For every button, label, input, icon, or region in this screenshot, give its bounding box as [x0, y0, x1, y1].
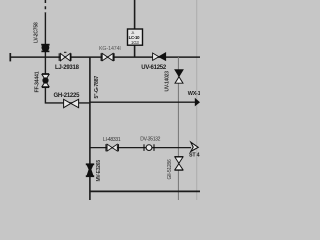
valve FF-34441 on line A (globe with filled ball): [42, 74, 49, 87]
wire: vertical line B from top edge to instrument box: [134, 0, 136, 29]
svg-text:MV-E3265: MV-E3265: [96, 160, 102, 182]
wire: horizontal line H3 from D to off-page arrow: [90, 147, 191, 149]
valve UV-14023 on line C (top filled): [175, 70, 183, 83]
valve LJ-29318 on H1 (gate with end ticks): [59, 52, 71, 61]
svg-text:ST 4: ST 4: [189, 153, 200, 159]
valve 4W-13265 on line D (filled spool): [86, 163, 94, 177]
valve UV-61252 on H1 (half-filled): [153, 53, 166, 61]
svg-text:LI-48331: LI-48331: [103, 137, 121, 143]
svg-text:LV-2C758: LV-2C758: [34, 22, 40, 43]
valve LI-48331 on H3 (with end bars): [106, 144, 118, 151]
svg-text:FF-34441: FF-34441: [34, 71, 40, 92]
svg-text:GH-21225: GH-21225: [54, 93, 81, 99]
wire: main horizontal header H1: [10, 56, 200, 58]
svg-text:UV-61252: UV-61252: [141, 65, 167, 71]
svg-text:WX-1: WX-1: [188, 91, 200, 97]
svg-text:LJ-29318: LJ-29318: [55, 65, 80, 71]
decorative faint page edge line: [196, 0, 198, 200]
wire: vertical line D at x=90 from H1 to bottom edge: [89, 57, 91, 200]
valve GH-21225 on H2: [64, 99, 79, 107]
svg-text:DV-35132: DV-35132: [140, 137, 160, 143]
instrument box LC-10: [128, 29, 143, 45]
wire: vertical line B from instrument box down to header H1: [134, 45, 136, 57]
svg-text:1G3: 1G3: [131, 40, 139, 45]
svg-text:UV-14023: UV-14023: [164, 71, 170, 92]
arrow: filled off-page arrow at right end of H2: [195, 98, 200, 107]
wire: vertical line A dashed top segment: [44, 0, 46, 13]
svg-text:KG-1474l: KG-1474l: [99, 46, 121, 52]
valve KG-14741 on H1 (with end bars): [101, 53, 114, 61]
node: pipe-end tick at left start of main header H1: [9, 53, 11, 61]
valve GW-51286 on line E (open bowtie, vertical): [175, 157, 184, 171]
wire: horizontal line H2 right part from D to right edge: [90, 101, 196, 103]
svg-text:GII-51286: GII-51286: [167, 159, 173, 179]
wire: bottom horizontal line H4 from D to right edge: [90, 190, 200, 192]
wire: vertical line A solid down to corner, turning right into line H2 (left part): [45, 13, 90, 103]
arrow: open off-page arrow at right end of H3: [191, 142, 198, 151]
svg-text:5"-G-7887: 5"-G-7887: [94, 76, 100, 99]
wire: thin vertical line C/E at x=178 from H1 to bottom edge: [177, 57, 179, 200]
valve V1 (filled) on line A: [41, 44, 49, 52]
valve DV-35132 on H3 (coupling with end bars): [144, 144, 154, 151]
